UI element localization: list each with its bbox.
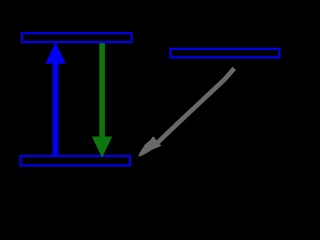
decay arrowhead (gray, barbed) xyxy=(138,137,161,157)
decay arrow (gray, diagonal line) xyxy=(155,68,235,145)
absorption arrow (blue, upward) xyxy=(45,42,65,157)
energy level E3 (right bar) xyxy=(171,49,280,58)
emission arrow (green, downward) xyxy=(92,43,112,158)
energy level E2 (upper left bar) xyxy=(22,33,132,42)
energy level E1 (ground, lower left bar) xyxy=(21,156,131,165)
